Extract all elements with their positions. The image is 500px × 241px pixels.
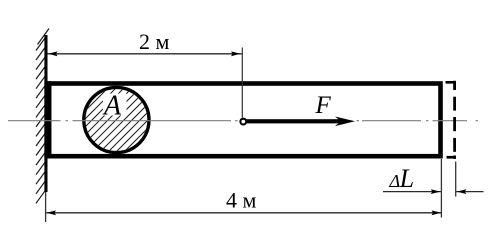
bar (rod) outline (49, 84, 441, 157)
bar left edge thickening (44, 81, 51, 158)
2 m left arrowhead (48, 51, 58, 56)
wall hatching (36, 29, 49, 204)
dashed displaced end: right vertical dashed line (453, 81, 456, 159)
4 m left arrowhead (47, 210, 57, 215)
2 m dimension line (48, 53, 243, 55)
extension line at bar right edge (440, 159, 442, 218)
svg-text:A: A (102, 91, 122, 122)
extension line from dimension to node (241, 48, 243, 118)
svg-text:4 м: 4 м (226, 188, 257, 213)
delta-L dimension, right line with left-pointing arrow (456, 191, 483, 193)
axis dash-dot centre line (8, 120, 478, 122)
2 m right arrowhead (231, 51, 241, 56)
4 m dimension line (46, 212, 441, 214)
delta-L dimension, left line with right-pointing arrow (383, 191, 441, 193)
dashed displaced end: top segment (446, 81, 457, 84)
svg-text:F: F (315, 92, 332, 119)
node circle (point of force application) (240, 119, 246, 125)
force F arrow shaft (247, 119, 341, 123)
cross-section circle A (60, 0, 180, 224)
extension line at displaced edge (455, 162, 457, 197)
force F arrowhead (335, 117, 355, 127)
wall line (44, 35, 47, 192)
wall extension line (left extension of 4 m dimension) (45, 192, 47, 222)
4 m right arrowhead (432, 210, 442, 215)
dashed displaced end: bottom segment (447, 156, 457, 159)
white patch behind label A (103, 94, 127, 116)
svg-text:2 м: 2 м (139, 29, 170, 54)
